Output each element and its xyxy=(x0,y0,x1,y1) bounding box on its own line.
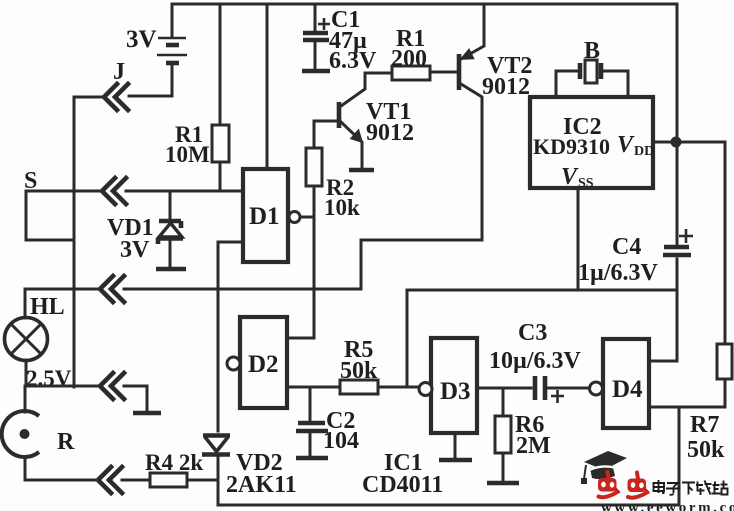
svg-text:3V: 3V xyxy=(126,26,157,53)
connector chevron R net xyxy=(98,467,122,493)
battery 3V xyxy=(126,4,187,96)
svg-text:C4: C4 xyxy=(612,234,641,260)
jack R xyxy=(2,386,75,480)
svg-text:CD4011: CD4011 xyxy=(362,472,443,498)
wire VDD node xyxy=(653,141,725,144)
svg-text:HL: HL xyxy=(30,294,65,320)
svg-text:3V: 3V xyxy=(120,237,150,263)
resistor R6 2M xyxy=(487,388,551,483)
wire D1 output stub xyxy=(300,216,314,219)
wire J to left rail xyxy=(74,96,104,99)
watermark site name glyphs xyxy=(654,480,728,495)
lamp HL xyxy=(5,289,72,391)
transistor VT2 9012 xyxy=(459,4,532,240)
svg-text:R4 2k: R4 2k xyxy=(145,450,203,475)
wire R to chevron xyxy=(25,479,98,482)
wire S horizontal to chevron xyxy=(26,190,102,193)
wire right rail C4 to D4 upper xyxy=(676,259,679,361)
wire VSS net vertical xyxy=(406,290,409,387)
resistor R1 10M xyxy=(165,4,229,191)
wire top supply rail xyxy=(173,3,677,6)
wire D2 input rail xyxy=(217,289,220,431)
wire chevron to corner xyxy=(124,288,361,291)
svg-text:9012: 9012 xyxy=(482,74,530,100)
wire D4 lower right to R7 xyxy=(649,379,725,407)
svg-text:10k: 10k xyxy=(324,195,360,220)
capacitor C2 104 xyxy=(296,387,359,458)
IC2 KD9310 box xyxy=(530,97,654,191)
gate D3 xyxy=(419,338,477,460)
gate D4 xyxy=(590,339,650,428)
wire lamp net y386 xyxy=(26,385,100,388)
resistor R4 2k xyxy=(145,450,218,487)
wire left rail down xyxy=(73,97,76,387)
svg-text:9012: 9012 xyxy=(366,120,414,146)
svg-text:D3: D3 xyxy=(440,378,471,405)
svg-text:B: B xyxy=(584,38,600,64)
wire right rail from top to C4 xyxy=(676,4,679,245)
wire S leg down to left rail xyxy=(26,191,74,240)
svg-text:SS: SS xyxy=(578,176,594,191)
capacitor C4 1u/6.3V xyxy=(578,229,693,286)
capacitor C3 10u/6.3V xyxy=(477,320,589,403)
junction dot VDD xyxy=(671,137,682,148)
svg-text:R7: R7 xyxy=(690,412,719,438)
wire chevron to R4 xyxy=(122,479,150,482)
svg-text:10M: 10M xyxy=(165,142,210,167)
wire D2 upper right input xyxy=(287,337,314,340)
wire chevron net y289 xyxy=(25,288,100,291)
gate D1 xyxy=(243,4,300,262)
zener diode VD1 3V xyxy=(107,191,186,269)
ground bar lamp net xyxy=(133,411,161,416)
diode VD2 2AK11 xyxy=(202,436,297,506)
wire S net to D1 input xyxy=(126,190,243,193)
svg-text:104: 104 xyxy=(323,428,359,454)
connector J xyxy=(104,59,128,110)
svg-text:D1: D1 xyxy=(249,203,280,230)
connector chevron mid xyxy=(100,276,124,302)
svg-text:10µ/6.3V: 10µ/6.3V xyxy=(489,348,581,374)
capacitor C1 47u 6.3V xyxy=(302,4,377,74)
resistor R7 50k xyxy=(687,142,732,463)
gate D2 xyxy=(227,317,287,408)
svg-text:D2: D2 xyxy=(248,351,279,378)
svg-text:KD9310: KD9310 xyxy=(533,134,610,159)
svg-text:D4: D4 xyxy=(612,376,643,403)
resistor R5 50k xyxy=(340,337,419,394)
svg-text:R: R xyxy=(57,429,75,455)
svg-text:6.3V: 6.3V xyxy=(329,48,377,74)
connector S chevron xyxy=(102,178,126,204)
resistor R1 200 xyxy=(365,26,457,80)
svg-text:www.eeworm.com: www.eeworm.com xyxy=(601,500,734,511)
wire D1 lower input xyxy=(218,242,243,289)
watermark chongchong red glyphs xyxy=(598,472,648,498)
svg-text:50k: 50k xyxy=(340,358,378,384)
svg-text:DD: DD xyxy=(634,144,654,159)
svg-text:50k: 50k xyxy=(687,437,725,463)
svg-text:J: J xyxy=(113,59,125,85)
wire chevron to ground stub xyxy=(124,386,147,411)
wire D2 output xyxy=(287,386,340,389)
svg-text:2M: 2M xyxy=(516,433,551,459)
transistor VT1 9012 xyxy=(339,73,414,170)
watermark graduation cap xyxy=(581,451,627,484)
wire bottom rail xyxy=(218,407,679,505)
svg-text:C3: C3 xyxy=(518,320,547,346)
wire D4 upper right to VSS net xyxy=(649,290,677,361)
resistor R2 10k xyxy=(306,121,360,338)
svg-text:200: 200 xyxy=(391,46,427,72)
wire battery to J connector xyxy=(129,95,172,98)
svg-text:V: V xyxy=(561,164,579,190)
svg-text:V: V xyxy=(617,132,635,158)
buzzer B xyxy=(556,38,628,97)
connector chevron 2.5V xyxy=(100,373,124,399)
wire IC2 VSS lead xyxy=(577,188,580,290)
svg-text:1µ/6.3V: 1µ/6.3V xyxy=(578,260,658,286)
wire VT2 collector to net xyxy=(361,240,482,289)
svg-text:2AK11: 2AK11 xyxy=(226,472,297,498)
wire VSS net horizontal xyxy=(407,289,677,292)
